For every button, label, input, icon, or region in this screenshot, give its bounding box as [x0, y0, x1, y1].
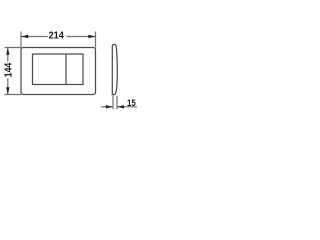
svg-text:15: 15 [127, 98, 136, 109]
svg-text:214: 214 [49, 30, 65, 41]
svg-text:144: 144 [3, 62, 14, 77]
